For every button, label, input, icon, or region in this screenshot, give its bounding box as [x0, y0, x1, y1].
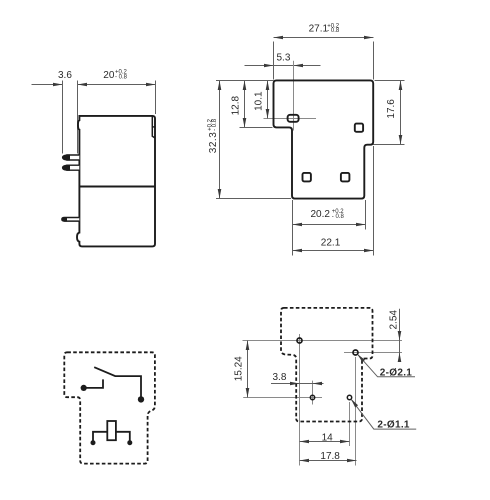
svg-text:- 0.8: - 0.8	[332, 214, 345, 220]
svg-text:17.8: 17.8	[320, 451, 340, 462]
svg-text:22.1: 22.1	[321, 238, 341, 249]
svg-text:27.1: 27.1	[309, 24, 329, 35]
svg-text:- 0.8: - 0.8	[115, 74, 128, 80]
svg-text:32.3: 32.3	[208, 132, 219, 153]
svg-text:12.8: 12.8	[231, 95, 242, 115]
svg-text:3.8: 3.8	[273, 372, 287, 383]
svg-text:17.6: 17.6	[386, 99, 397, 119]
svg-text:20.2: 20.2	[311, 209, 331, 220]
svg-text:2.54: 2.54	[388, 310, 399, 330]
svg-text:5.3: 5.3	[277, 53, 291, 64]
svg-text:10.1: 10.1	[254, 91, 265, 111]
svg-text:2-Ø2.1: 2-Ø2.1	[380, 368, 413, 379]
svg-text:3.6: 3.6	[58, 70, 72, 81]
svg-text:14: 14	[322, 432, 334, 443]
svg-text:20: 20	[103, 70, 115, 81]
svg-text:15.24: 15.24	[233, 356, 244, 381]
svg-text:- 0.8: - 0.8	[327, 28, 340, 34]
svg-text:2-Ø1.1: 2-Ø1.1	[377, 420, 410, 431]
svg-text:- 0.8: - 0.8	[212, 118, 218, 131]
